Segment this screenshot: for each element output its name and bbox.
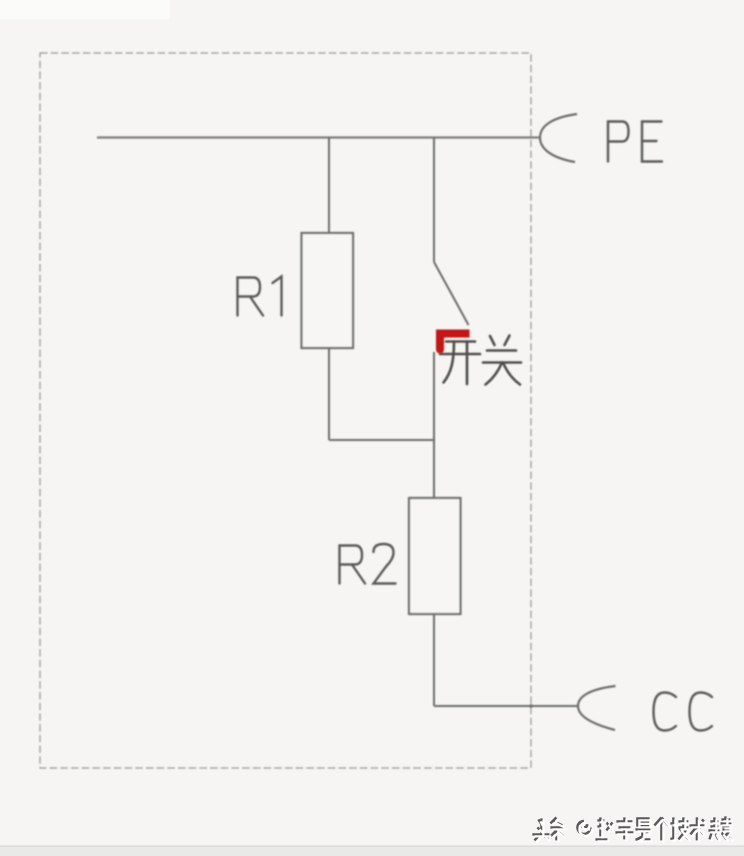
开 (446, 340, 475, 343)
dashed enclosure border (40, 53, 531, 768)
connector CC symbol (578, 686, 616, 730)
label 开关 (switch) (440, 336, 521, 385)
wire: R1 top lead (328, 138, 330, 234)
connector PE symbol (540, 114, 577, 162)
bottom gray bar (0, 846, 744, 856)
switch blade (open) (434, 262, 469, 325)
red highlight mark on switch contact (440, 334, 470, 350)
wire: top horizontal PE bus (97, 136, 540, 138)
关 (490, 336, 495, 345)
label R1 (238, 277, 282, 316)
wire: R2 bottom lead (433, 614, 435, 706)
wire: bottom horizontal to CC (434, 705, 578, 707)
resistor R1 (302, 233, 354, 348)
wire: horizontal jumper R1 to switch node (329, 439, 434, 441)
top light strip (0, 0, 170, 19)
junction dot on border crossing (529, 704, 533, 708)
wire: R1 bottom lead (328, 348, 330, 440)
wire: switch top lead (433, 138, 435, 263)
wire: switch bottom lead down to R2 (433, 352, 435, 498)
resistor R2 (409, 498, 461, 614)
label PE (608, 122, 662, 162)
label R2 (340, 544, 396, 584)
label CC (654, 693, 713, 731)
